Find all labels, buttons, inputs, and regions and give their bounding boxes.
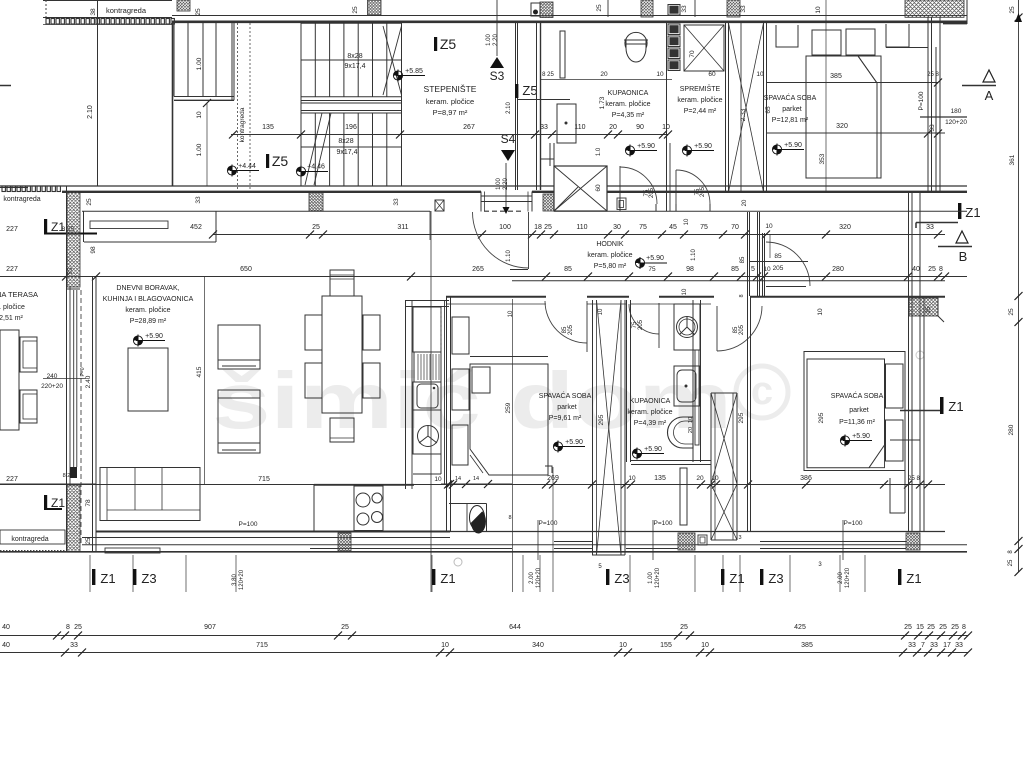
svg-text:40: 40: [2, 642, 10, 649]
svg-text:10: 10: [684, 218, 690, 225]
svg-text:P=100: P=100: [918, 91, 925, 110]
svg-text:98: 98: [686, 266, 694, 273]
svg-text:kontragreda: kontragreda: [239, 107, 246, 142]
svg-text:25 8: 25 8: [908, 476, 920, 482]
svg-text:keram. pločice: keram. pločice: [627, 409, 672, 416]
svg-text:Z1: Z1: [51, 496, 65, 510]
svg-text:425: 425: [794, 624, 806, 631]
svg-text:25: 25: [951, 624, 959, 631]
svg-text:B: B: [959, 249, 968, 264]
svg-text:205: 205: [739, 324, 745, 335]
svg-text:120+20: 120+20: [536, 567, 542, 588]
svg-text:650: 650: [240, 266, 252, 273]
svg-text:+5.90: +5.90: [644, 446, 662, 453]
svg-text:78: 78: [85, 499, 92, 507]
svg-text:8x28: 8x28: [338, 138, 353, 145]
svg-text:40: 40: [2, 624, 10, 631]
svg-text:205: 205: [568, 324, 574, 335]
svg-text:2.10: 2.10: [506, 102, 512, 114]
svg-text:70: 70: [731, 224, 739, 231]
svg-text:155: 155: [660, 642, 672, 649]
svg-text:75: 75: [639, 224, 647, 231]
svg-text:P=4,39 m²: P=4,39 m²: [634, 420, 667, 427]
svg-text:2.33: 2.33: [740, 108, 747, 121]
svg-text:25: 25: [904, 624, 912, 631]
svg-text:2.00: 2.00: [838, 572, 844, 584]
svg-text:P=4,35 m²: P=4,35 m²: [612, 112, 645, 119]
svg-text:S3: S3: [490, 69, 505, 83]
svg-text:+5.90: +5.90: [145, 333, 163, 340]
svg-text:25: 25: [195, 8, 202, 16]
svg-text:295: 295: [818, 412, 825, 423]
svg-text:keram. pločice: keram. pločice: [677, 97, 722, 104]
svg-text:20: 20: [600, 71, 608, 78]
svg-text:1.00: 1.00: [648, 572, 654, 584]
svg-text:P=5,80 m²: P=5,80 m²: [594, 263, 627, 270]
svg-text:340: 340: [532, 642, 544, 649]
svg-text:P=12,81 m²: P=12,81 m²: [772, 117, 809, 124]
svg-text:1.0: 1.0: [596, 147, 602, 156]
svg-text:259: 259: [505, 402, 512, 413]
svg-text:+4.44: +4.44: [238, 163, 256, 170]
svg-text:25: 25: [312, 224, 320, 231]
svg-text:353: 353: [819, 153, 826, 164]
svg-text:10: 10: [701, 642, 709, 649]
svg-text:Z3: Z3: [614, 571, 629, 586]
svg-text:10: 10: [817, 308, 824, 316]
svg-text:25: 25: [86, 537, 92, 544]
svg-text:33: 33: [929, 124, 936, 132]
svg-text:keram. pločice: keram. pločice: [587, 252, 632, 259]
svg-text:25: 25: [939, 624, 947, 631]
svg-text:P=11,36 m²: P=11,36 m²: [839, 419, 876, 426]
svg-text:10: 10: [765, 223, 773, 230]
svg-text:120+20: 120+20: [239, 569, 245, 590]
svg-text:715: 715: [258, 476, 270, 483]
svg-text:227: 227: [6, 476, 18, 483]
svg-text:10: 10: [434, 476, 442, 483]
svg-text:9x17,4: 9x17,4: [344, 63, 365, 70]
svg-text:1.10: 1.10: [506, 250, 512, 262]
svg-text:1.73: 1.73: [599, 96, 606, 109]
svg-text:DNEVNI BORAVAK,: DNEVNI BORAVAK,: [116, 285, 179, 292]
svg-text:8x28: 8x28: [347, 53, 362, 60]
svg-text:295: 295: [598, 414, 605, 425]
svg-text:P=28,89 m²: P=28,89 m²: [130, 318, 167, 325]
svg-text:Z3: Z3: [768, 571, 783, 586]
svg-text:2.20: 2.20: [503, 178, 509, 190]
svg-text:33: 33: [681, 5, 688, 13]
svg-text:10: 10: [619, 642, 627, 649]
svg-text:kontragreda: kontragreda: [106, 6, 147, 15]
svg-text:386: 386: [800, 475, 812, 482]
svg-text:10: 10: [598, 308, 604, 315]
svg-text:10: 10: [815, 6, 822, 14]
svg-text:P=9,61 m²: P=9,61 m²: [549, 415, 582, 422]
svg-text:10: 10: [196, 111, 203, 119]
svg-text:85: 85: [564, 266, 572, 273]
svg-text:+5.90: +5.90: [694, 143, 712, 150]
svg-text:45: 45: [669, 224, 677, 231]
svg-text:KUHINJA I BLAGOVAONICA: KUHINJA I BLAGOVAONICA: [103, 296, 194, 303]
svg-text:1.00: 1.00: [486, 34, 492, 46]
svg-text:33: 33: [195, 196, 202, 204]
svg-text:33: 33: [393, 198, 400, 206]
svg-text:25: 25: [352, 6, 359, 14]
svg-text:10: 10: [441, 642, 449, 649]
svg-text:280: 280: [1008, 424, 1015, 435]
svg-text:SPAVAĆA SOBA: SPAVAĆA SOBA: [539, 391, 592, 400]
svg-text:38: 38: [90, 8, 97, 16]
svg-text:100: 100: [499, 224, 511, 231]
svg-text:20: 20: [742, 199, 748, 206]
svg-text:Z1: Z1: [965, 205, 980, 220]
svg-text:205: 205: [773, 265, 784, 272]
svg-text:227: 227: [6, 266, 18, 273]
svg-text:keram. pločice: keram. pločice: [605, 101, 650, 108]
svg-text:25: 25: [596, 4, 603, 12]
svg-text:8: 8: [939, 266, 943, 273]
svg-text:20: 20: [609, 124, 617, 131]
svg-text:25: 25: [927, 624, 935, 631]
svg-text:keram. pločice: keram. pločice: [426, 97, 474, 106]
svg-text:180: 180: [951, 108, 962, 115]
svg-text:25: 25: [86, 198, 93, 206]
svg-text:18: 18: [534, 224, 542, 231]
svg-text:P=0: P=0: [80, 367, 86, 376]
svg-text:33: 33: [930, 642, 938, 649]
svg-text:25: 25: [74, 624, 82, 631]
svg-text:+4.46: +4.46: [307, 164, 325, 171]
svg-text:135: 135: [654, 475, 666, 482]
svg-text:311: 311: [397, 224, 408, 231]
svg-text:644: 644: [509, 624, 521, 631]
svg-text:8 25: 8 25: [63, 473, 74, 479]
svg-text:2,51 m²: 2,51 m²: [0, 315, 24, 322]
svg-text:7: 7: [921, 642, 925, 649]
svg-text:SPAVAĆA SOBA: SPAVAĆA SOBA: [764, 93, 817, 102]
svg-text:33: 33: [926, 224, 934, 231]
svg-text:25: 25: [1009, 6, 1016, 14]
svg-text:85: 85: [740, 256, 746, 263]
svg-text:85: 85: [731, 266, 739, 273]
svg-text:+5.90: +5.90: [565, 439, 583, 446]
svg-text:240: 240: [47, 373, 58, 380]
svg-text:2.40: 2.40: [85, 375, 92, 388]
svg-text:85: 85: [774, 253, 782, 260]
svg-text:10: 10: [656, 71, 664, 78]
svg-text:SPAVAĆA SOBA: SPAVAĆA SOBA: [831, 391, 884, 400]
svg-text:P=100: P=100: [654, 520, 673, 527]
svg-text:10: 10: [682, 288, 688, 295]
svg-text:14: 14: [473, 476, 479, 482]
svg-text:907: 907: [204, 624, 216, 631]
svg-text:kontragreda: kontragreda: [11, 536, 48, 543]
svg-text:120+20: 120+20: [945, 119, 967, 126]
svg-text:parket: parket: [849, 407, 869, 414]
svg-text:NA TERASA: NA TERASA: [0, 290, 38, 299]
svg-text:10: 10: [756, 71, 764, 78]
svg-text:40: 40: [912, 266, 920, 273]
svg-text:90: 90: [636, 124, 644, 131]
svg-text:110: 110: [576, 224, 587, 231]
svg-text:25: 25: [341, 624, 349, 631]
svg-text:P=100: P=100: [239, 521, 258, 528]
svg-text:Z1: Z1: [729, 571, 744, 586]
svg-text:Z1: Z1: [948, 399, 963, 414]
svg-text:+5.85: +5.85: [405, 68, 423, 75]
svg-text:60: 60: [595, 184, 602, 192]
svg-text:220+20: 220+20: [41, 383, 63, 390]
svg-text:361: 361: [1009, 154, 1016, 165]
svg-text:STEPENIŠTE: STEPENIŠTE: [424, 84, 477, 94]
svg-text:135: 135: [262, 124, 274, 131]
svg-text:33: 33: [70, 642, 78, 649]
svg-text:Z1: Z1: [100, 571, 115, 586]
svg-text:75: 75: [700, 224, 708, 231]
svg-text:P=8,97 m²: P=8,97 m²: [433, 108, 468, 117]
svg-text:c: c: [751, 369, 773, 413]
svg-text:P=2,44 m²: P=2,44 m²: [684, 108, 717, 115]
svg-text:715: 715: [256, 642, 268, 649]
svg-text:Z1: Z1: [906, 571, 921, 586]
svg-text:33: 33: [955, 642, 963, 649]
svg-text:75: 75: [648, 266, 656, 273]
svg-text:415: 415: [196, 366, 203, 377]
svg-text:33: 33: [908, 642, 916, 649]
svg-text:KUPAONICA: KUPAONICA: [630, 398, 671, 405]
svg-text:+5.90: +5.90: [646, 255, 664, 262]
svg-text:15: 15: [916, 624, 924, 631]
svg-text:P=100: P=100: [539, 520, 558, 527]
svg-text:8: 8: [508, 515, 511, 521]
svg-text:Z5: Z5: [440, 36, 457, 52]
svg-text:25: 25: [1008, 559, 1014, 566]
svg-text:SPREMIŠTE: SPREMIŠTE: [680, 84, 721, 93]
svg-text:8: 8: [739, 294, 745, 297]
svg-text:33: 33: [740, 5, 747, 13]
svg-text:9x17,4: 9x17,4: [336, 149, 357, 156]
svg-text:280: 280: [832, 266, 844, 273]
svg-text:2.00: 2.00: [529, 572, 535, 584]
svg-text:KUPAONICA: KUPAONICA: [608, 90, 649, 97]
svg-text:70: 70: [689, 50, 696, 58]
svg-text:385: 385: [830, 73, 842, 80]
svg-text:25: 25: [1008, 308, 1015, 316]
svg-text:267: 267: [463, 124, 475, 131]
svg-text:+5.90: +5.90: [637, 143, 655, 150]
svg-text:1.00: 1.00: [496, 178, 502, 190]
svg-text:452: 452: [190, 224, 202, 231]
svg-text:98: 98: [90, 246, 97, 254]
svg-text:Z5: Z5: [522, 83, 537, 98]
svg-text:Z1: Z1: [440, 571, 455, 586]
svg-text:385: 385: [801, 642, 813, 649]
svg-text:+5.90: +5.90: [852, 433, 870, 440]
svg-text:HODNIK: HODNIK: [596, 241, 624, 248]
svg-text:+5.90: +5.90: [784, 142, 802, 149]
svg-text:Z3: Z3: [141, 571, 156, 586]
svg-text:25: 25: [925, 306, 932, 314]
svg-text:295: 295: [738, 412, 745, 423]
svg-text:5: 5: [751, 266, 755, 273]
svg-text:320: 320: [839, 224, 851, 231]
svg-text:2.10: 2.10: [87, 105, 94, 119]
svg-text:. pločice: . pločice: [0, 304, 25, 311]
svg-text:kontragreda: kontragreda: [3, 196, 40, 203]
svg-text:196: 196: [345, 124, 357, 131]
svg-text:25 8: 25 8: [927, 72, 939, 78]
svg-text:1.00: 1.00: [196, 57, 203, 70]
svg-text:33: 33: [540, 124, 548, 131]
svg-text:265: 265: [472, 266, 484, 273]
svg-text:8: 8: [66, 624, 70, 631]
svg-text:8: 8: [962, 624, 966, 631]
svg-text:3: 3: [738, 535, 741, 541]
svg-text:8 25: 8 25: [542, 72, 554, 78]
svg-text:1.10: 1.10: [691, 249, 697, 261]
svg-text:17: 17: [943, 642, 951, 649]
svg-text:120+20: 120+20: [845, 567, 851, 588]
svg-text:25: 25: [928, 266, 936, 273]
svg-text:3.80: 3.80: [232, 574, 238, 586]
svg-text:A: A: [985, 88, 994, 103]
svg-text:320: 320: [836, 123, 848, 130]
svg-text:25: 25: [680, 624, 688, 631]
svg-text:10: 10: [508, 310, 514, 317]
svg-text:Z5: Z5: [272, 153, 289, 169]
svg-text:227: 227: [6, 226, 18, 233]
svg-text:30: 30: [613, 224, 621, 231]
svg-text:60: 60: [708, 71, 716, 78]
svg-text:P=100: P=100: [844, 520, 863, 527]
svg-text:parket: parket: [782, 106, 802, 113]
svg-text:2.20: 2.20: [493, 34, 499, 46]
svg-text:205: 205: [638, 319, 644, 330]
svg-text:1.00: 1.00: [196, 143, 203, 156]
svg-text:20: 20: [696, 475, 704, 482]
svg-text:120+20: 120+20: [655, 567, 661, 588]
svg-text:parket: parket: [557, 404, 577, 411]
svg-text:keram. pločice: keram. pločice: [125, 307, 170, 314]
svg-text:25: 25: [544, 224, 552, 231]
